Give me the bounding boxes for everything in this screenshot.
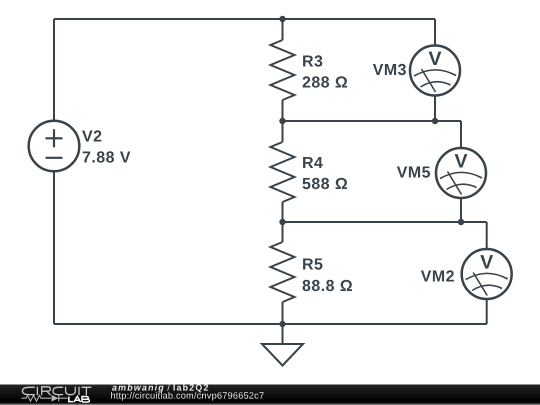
voltmeter VM3 bbox=[410, 46, 460, 96]
label V2 value 7.88 V bbox=[83, 151, 131, 162]
label VM2 designator bbox=[421, 270, 454, 281]
junction node B at VM3 bottom bbox=[432, 118, 438, 124]
ground symbol bbox=[262, 344, 303, 366]
wire R3 top stub bbox=[282, 19, 284, 40]
junction node A (top rail / R3) bbox=[279, 16, 285, 22]
resistor R3 bbox=[271, 40, 295, 100]
wire VM5 bottom stub bbox=[460, 198, 462, 222]
logo LAB wordmark bbox=[69, 396, 90, 402]
wire top rail node A bbox=[54, 18, 435, 20]
label VM5 designator bbox=[397, 167, 430, 178]
wire bottom ground rail bbox=[54, 323, 487, 325]
wire VM2 bottom stub bbox=[486, 299, 488, 324]
wire R4 top stub bbox=[282, 121, 284, 142]
voltage source V2 bbox=[29, 121, 80, 172]
wire left rail lower bbox=[53, 171, 55, 324]
label R3 value 288 ohm bbox=[303, 76, 348, 87]
resistor R5 bbox=[271, 242, 295, 302]
resistor R4 bbox=[271, 142, 295, 202]
wire R3 bottom stub bbox=[282, 100, 284, 121]
label V2 designator bbox=[82, 130, 101, 141]
wire VM2 top stub bbox=[486, 222, 488, 249]
wire R4 bottom stub bbox=[282, 202, 284, 222]
footer credit lab2Q2 bbox=[174, 384, 209, 392]
logo CIRCUIT wordmark bbox=[22, 387, 91, 396]
label R4 value 588 ohm bbox=[303, 178, 348, 189]
wire node C rail (R4 bottom to VM2 branch) bbox=[283, 221, 487, 223]
footer credit slash bbox=[167, 384, 170, 391]
wire VM5 top stub bbox=[460, 121, 462, 148]
junction node C at R4 bottom bbox=[279, 219, 285, 225]
wire VM3 top stub bbox=[434, 19, 436, 46]
label R5 designator bbox=[303, 259, 322, 270]
label R5 value 88.8 ohm bbox=[303, 280, 353, 291]
logo resistor squiggle bbox=[22, 395, 52, 401]
wire left rail upper bbox=[53, 19, 55, 121]
footer credit ambwanig bbox=[112, 384, 164, 392]
label R4 designator bbox=[303, 157, 323, 168]
wire VM3 bottom stub bbox=[434, 96, 436, 122]
junction ground node bbox=[279, 321, 285, 327]
junction node B at R3 bottom bbox=[279, 118, 285, 124]
voltmeter VM5 bbox=[436, 148, 486, 198]
footer bar bbox=[0, 385, 540, 405]
voltmeter VM2 bbox=[462, 249, 512, 299]
wire R5 bottom stub bbox=[282, 302, 284, 324]
wire ground stub bbox=[282, 324, 284, 344]
junction node C at VM5 bottom bbox=[458, 219, 464, 225]
label R3 designator bbox=[303, 55, 322, 66]
wire R5 top stub bbox=[282, 222, 284, 242]
wire node B rail (R3 bottom to VM5 branch) bbox=[283, 120, 462, 122]
label VM3 designator bbox=[373, 64, 406, 75]
logo diode bbox=[52, 395, 59, 402]
footer url bbox=[111, 392, 264, 401]
